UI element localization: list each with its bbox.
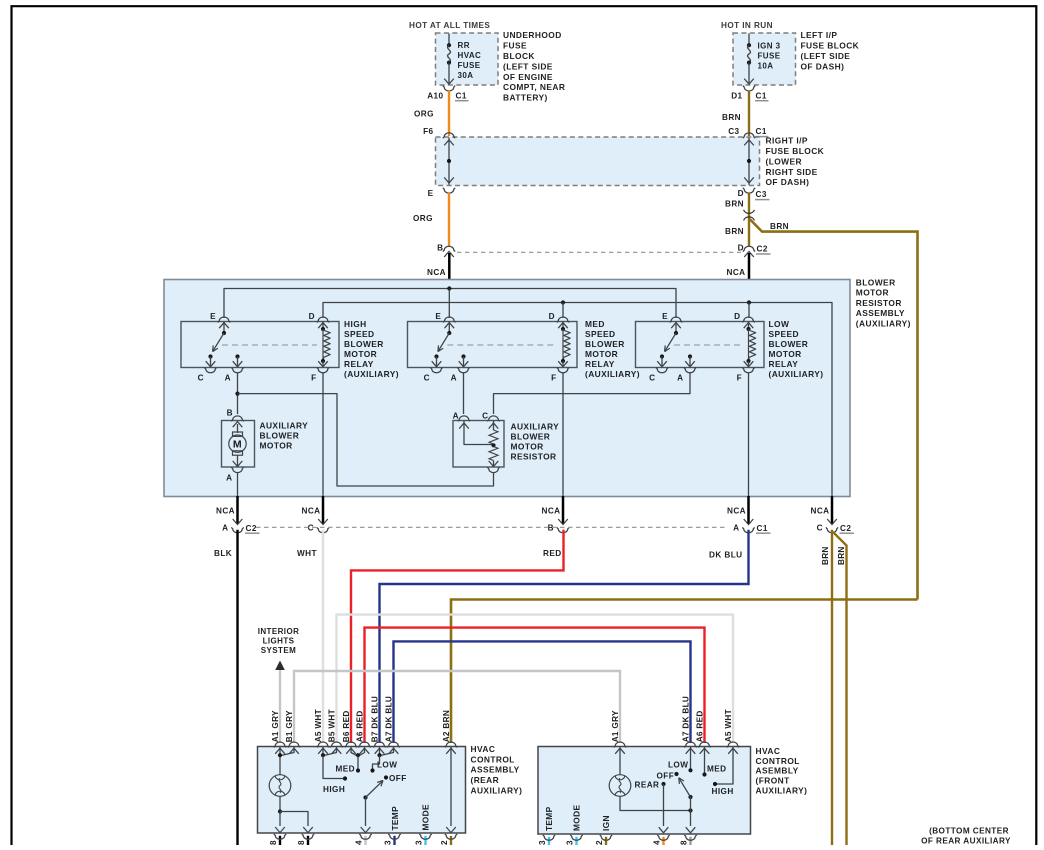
svg-text:IGN: IGN: [601, 815, 611, 831]
front bottom pin 4: [662, 837, 664, 846]
svg-text:IGN 3: IGN 3: [758, 42, 781, 51]
rear HVAC pin A6 RED: [358, 742, 370, 747]
svg-text:ASEMBLY: ASEMBLY: [756, 766, 799, 776]
svg-text:A: A: [451, 374, 457, 383]
relay coil: [321, 327, 325, 331]
wire WHT from connector C to rear A5: [322, 530, 324, 743]
rear HVAC pin A7 DK BLU: [387, 742, 399, 747]
splice S-double-arc in BRN wire: [744, 210, 755, 214]
svg-text:MOTOR: MOTOR: [260, 440, 293, 450]
svg-text:BRN: BRN: [725, 200, 744, 209]
svg-text:LIGHTS: LIGHTS: [263, 637, 295, 646]
wire BLK from connector A C2: [236, 530, 238, 845]
pass-through pin F6-E: [443, 133, 455, 138]
relay internal dashed line: [447, 344, 557, 346]
svg-text:ASSEMBLY: ASSEMBLY: [471, 765, 520, 775]
svg-text:BLOWER: BLOWER: [260, 430, 300, 440]
pin C: [204, 367, 216, 372]
svg-text:D: D: [549, 312, 555, 321]
wire BRN below right I/P block: [748, 193, 750, 247]
svg-text:OF ENGINE: OF ENGINE: [503, 72, 553, 82]
svg-text:RED: RED: [695, 710, 704, 728]
svg-text:TEMP: TEMP: [390, 806, 400, 831]
resistor internal tap: [464, 421, 494, 445]
svg-text:8: 8: [269, 840, 278, 845]
svg-text:B7: B7: [370, 731, 379, 742]
svg-text:NCA: NCA: [811, 507, 830, 516]
svg-text:DK BLU: DK BLU: [384, 696, 393, 729]
wire BRN branch to far right: [750, 219, 918, 600]
pin E: [670, 317, 682, 322]
front switch arm: [688, 795, 692, 799]
svg-text:8: 8: [679, 840, 688, 845]
svg-text:FUSE BLOCK: FUSE BLOCK: [801, 41, 860, 51]
svg-text:BLOWER: BLOWER: [344, 339, 384, 349]
med speed blower motor relay (auxiliary) box: [408, 322, 578, 368]
relay internal dashed line: [674, 344, 743, 346]
svg-text:(REAR: (REAR: [471, 775, 500, 785]
svg-text:LOW: LOW: [377, 760, 397, 769]
wire WHT rear B5 to front A5: [337, 615, 734, 743]
svg-text:MOTOR: MOTOR: [856, 288, 889, 298]
svg-text:A: A: [226, 473, 232, 482]
svg-text:F6: F6: [423, 127, 433, 136]
in-line connector B (left): [443, 246, 455, 251]
svg-text:CONTROL: CONTROL: [471, 754, 515, 764]
right I/P fuse block (dashed box): [436, 137, 760, 186]
resistor element: [493, 421, 495, 431]
svg-text:3: 3: [383, 840, 392, 845]
high speed blower motor relay (auxiliary) box: [181, 322, 339, 368]
svg-text:SPEED: SPEED: [585, 329, 616, 339]
svg-text:C: C: [482, 411, 488, 420]
rear HVAC pin B5 WHT: [330, 742, 342, 747]
rear HVAC pin B6 RED: [345, 742, 357, 747]
svg-text:MODE: MODE: [572, 805, 582, 831]
wire RED from connector B to rear B6: [351, 530, 564, 743]
svg-text:(AUXILIARY): (AUXILIARY): [585, 369, 640, 379]
svg-text:BRN: BRN: [725, 227, 744, 236]
pin A: [457, 367, 469, 372]
svg-text:SPEED: SPEED: [769, 329, 800, 339]
svg-text:3: 3: [538, 840, 547, 845]
motor pin A: [231, 467, 243, 472]
relay switch: [447, 331, 451, 335]
pin F: [317, 367, 329, 372]
svg-text:D: D: [309, 312, 315, 321]
svg-text:REAR: REAR: [635, 780, 660, 789]
connector C1 of left I/P fuse block (D1): [743, 86, 755, 91]
wire relay3 A to resistor C: [494, 373, 691, 414]
svg-text:(LOWER: (LOWER: [766, 156, 802, 166]
in-line connector D C2 (right): [743, 246, 755, 251]
rear A2 BRN pass-through: [450, 747, 452, 827]
front LOW contact from A7: [690, 747, 692, 770]
relay switch: [222, 331, 226, 335]
rear bottom pin 8: [307, 836, 309, 846]
dashed connector line (C2-C1 row): [256, 526, 727, 528]
front HVAC pin A7 DK BLU: [684, 742, 696, 747]
svg-text:D: D: [734, 312, 740, 321]
svg-text:B1: B1: [285, 731, 294, 742]
pin A: [684, 367, 696, 372]
auxiliary blower motor box: [222, 421, 255, 468]
HVAC control assembly (front auxiliary) box: [538, 747, 751, 835]
pin E: [443, 317, 455, 322]
svg-text:BLOWER: BLOWER: [769, 339, 809, 349]
svg-text:3: 3: [414, 840, 423, 845]
svg-text:HVAC: HVAC: [756, 746, 781, 756]
rear bottom pin 4: [364, 836, 366, 846]
wire BRN pair from connector C C2: [831, 530, 833, 845]
wire NCA stubs to connectors: [236, 496, 239, 524]
wire relay1 A to motor B and junction: [237, 373, 239, 414]
front HVAC pin A1 GRY: [614, 742, 626, 747]
bus wire E (top): [224, 289, 676, 319]
svg-text:C1: C1: [756, 91, 767, 100]
front bottom pin 3: [575, 837, 577, 846]
svg-text:30A: 30A: [458, 71, 474, 80]
svg-text:OFF: OFF: [389, 774, 407, 783]
pass-through pin C3-D: [743, 133, 755, 138]
svg-text:(LEFT SIDE: (LEFT SIDE: [503, 61, 553, 71]
svg-text:B5: B5: [327, 731, 336, 742]
rear bottom pin 3: [424, 836, 426, 846]
svg-text:UNDERHOOD: UNDERHOOD: [503, 30, 562, 40]
pin A: [231, 367, 243, 372]
svg-text:B: B: [227, 408, 233, 417]
resistor pin A: [458, 416, 470, 421]
rear bottom pin 8: [279, 836, 281, 846]
svg-text:RED: RED: [543, 549, 562, 558]
wire motor A down to connector A (NCA): [237, 473, 239, 496]
svg-text:RED: RED: [355, 710, 364, 728]
connector exit D C3 (right): [743, 188, 755, 193]
pin D: [317, 317, 329, 322]
rear switch MED feed from B6/A6: [351, 747, 356, 756]
pin D: [742, 317, 754, 322]
connector exit E (left): [443, 188, 455, 193]
svg-text:FUSE: FUSE: [458, 61, 481, 70]
svg-text:BRN: BRN: [821, 546, 830, 565]
svg-text:F: F: [551, 374, 556, 383]
rear bottom pin 2: [450, 836, 452, 846]
svg-text:RELAY: RELAY: [585, 359, 615, 369]
svg-text:(FRONT: (FRONT: [756, 776, 791, 786]
HVAC control assembly (rear auxiliary) box: [258, 747, 466, 834]
svg-text:C2: C2: [757, 245, 768, 254]
relay internal dashed line: [222, 344, 317, 346]
svg-text:E: E: [210, 312, 216, 321]
pin C: [430, 367, 442, 372]
wire GRY rear A1 to interior lights arrow: [279, 670, 281, 743]
svg-text:BRN: BRN: [442, 710, 451, 729]
svg-text:GRY: GRY: [271, 710, 280, 729]
svg-text:MED: MED: [336, 764, 355, 773]
svg-text:C3: C3: [728, 127, 739, 136]
front bottom pin 3: [548, 837, 550, 846]
svg-text:INTERIOR: INTERIOR: [258, 627, 300, 636]
svg-text:A2: A2: [442, 731, 451, 742]
rear HVAC pin B7 DK BLU: [373, 742, 385, 747]
svg-text:AUXILIARY: AUXILIARY: [260, 420, 309, 430]
svg-text:BLOWER: BLOWER: [511, 431, 551, 441]
rear switch OFF contact: [384, 775, 388, 779]
svg-text:10A: 10A: [758, 62, 774, 71]
svg-text:A1: A1: [611, 731, 620, 742]
front bottom pin 2: [605, 837, 607, 846]
arrow to interior lights system: [275, 661, 285, 671]
rear HVAC pin B1 GRY: [288, 742, 300, 747]
svg-text:A5: A5: [314, 731, 323, 742]
svg-text:C3: C3: [756, 190, 767, 199]
rear HVAC pin A2 BRN: [445, 742, 457, 747]
svg-text:F: F: [737, 374, 742, 383]
svg-text:ORG: ORG: [414, 110, 434, 119]
wire RED rear A6 to front A6: [365, 628, 705, 743]
svg-text:A: A: [677, 374, 683, 383]
svg-text:BLK: BLK: [214, 549, 232, 558]
wire NCA left into assembly: [448, 253, 451, 289]
svg-text:BRN: BRN: [770, 222, 789, 231]
svg-text:C: C: [649, 374, 655, 383]
svg-text:C2: C2: [840, 524, 851, 533]
rear lamp output junction: [278, 809, 282, 813]
svg-text:C: C: [198, 374, 204, 383]
wire DK BLU rear A7 to front A7: [394, 641, 691, 743]
wire junction to resistor path (down-right-up): [238, 394, 494, 486]
svg-text:AUXILIARY): AUXILIARY): [471, 786, 523, 796]
svg-text:RESISTOR: RESISTOR: [511, 452, 557, 462]
relay switch: [674, 331, 678, 335]
front HVAC pin A5 WHT: [727, 742, 739, 747]
svg-text:OF REAR AUXILIARY: OF REAR AUXILIARY: [921, 837, 1011, 846]
svg-text:F: F: [311, 374, 316, 383]
svg-text:MED: MED: [707, 765, 726, 774]
svg-text:A1: A1: [271, 731, 280, 742]
svg-text:E: E: [435, 312, 441, 321]
low speed blower motor relay (auxiliary) box: [636, 322, 765, 368]
front MED contact from A6: [704, 747, 706, 775]
svg-text:A5: A5: [724, 731, 733, 742]
svg-text:C: C: [424, 374, 430, 383]
relay coil: [561, 327, 565, 331]
svg-text:AUXILIARY: AUXILIARY: [511, 421, 560, 431]
wire DK BLU from connector A C1 to rear B7: [380, 530, 749, 743]
svg-text:DK BLU: DK BLU: [709, 550, 742, 559]
svg-text:ORG: ORG: [413, 214, 433, 223]
svg-text:A7: A7: [681, 731, 690, 742]
svg-text:BLOCK: BLOCK: [503, 51, 535, 61]
svg-text:RELAY: RELAY: [344, 359, 374, 369]
svg-text:4: 4: [652, 840, 661, 845]
front switch common to pin 8: [690, 797, 692, 826]
svg-text:M: M: [233, 439, 242, 451]
svg-text:NCA: NCA: [727, 507, 746, 516]
svg-text:RED: RED: [342, 710, 351, 728]
rear switch arm: [363, 795, 367, 799]
svg-text:8: 8: [297, 840, 306, 845]
svg-text:2: 2: [595, 840, 604, 845]
wire ORG from underhood fuse: [448, 91, 450, 136]
wire relay3 F down to connector A (NCA): [748, 373, 750, 496]
svg-text:2: 2: [440, 840, 449, 845]
fuse RR HVAC FUSE 30A: [448, 34, 450, 46]
svg-text:TEMP: TEMP: [544, 806, 554, 831]
svg-text:GRY: GRY: [611, 710, 620, 729]
rear switch LOW feed from B7/A7: [379, 747, 381, 756]
motor symbol M: [233, 432, 243, 436]
svg-text:C2: C2: [246, 524, 257, 533]
rear HVAC pin A1 GRY: [274, 742, 286, 747]
rear lamp symbol: [269, 775, 291, 797]
fuse IGN 3 FUSE 10A: [748, 34, 750, 46]
svg-text:D1: D1: [731, 91, 742, 100]
svg-text:HIGH: HIGH: [323, 785, 345, 794]
svg-text:FUSE: FUSE: [758, 52, 781, 61]
svg-text:A7: A7: [384, 731, 393, 742]
svg-text:(AUXILIARY): (AUXILIARY): [344, 369, 399, 379]
motor pin B: [231, 416, 243, 421]
svg-text:C1: C1: [757, 524, 768, 533]
svg-text:A10: A10: [427, 91, 443, 100]
svg-text:WHT: WHT: [327, 709, 336, 729]
svg-text:(BOTTOM CENTER: (BOTTOM CENTER: [929, 826, 1009, 835]
svg-text:ASSEMBLY: ASSEMBLY: [856, 308, 905, 318]
resistor bottom pin: [487, 467, 499, 472]
pin F: [742, 367, 754, 372]
rear switch HIGH feed from A5/B5: [322, 747, 324, 756]
svg-text:3: 3: [565, 840, 574, 845]
svg-text:MOTOR: MOTOR: [769, 349, 802, 359]
svg-text:OF DASH): OF DASH): [801, 61, 845, 71]
pin F: [557, 367, 569, 372]
svg-text:(LEFT SIDE: (LEFT SIDE: [801, 51, 851, 61]
svg-text:B6: B6: [342, 731, 351, 742]
wire relay2 F down to connector B (NCA): [562, 373, 564, 496]
relay coil: [746, 327, 750, 331]
svg-text:NCA: NCA: [302, 507, 321, 516]
svg-text:(AUXILIARY): (AUXILIARY): [769, 369, 824, 379]
svg-text:OF DASH): OF DASH): [766, 177, 810, 187]
svg-text:WHT: WHT: [724, 709, 733, 729]
front interior: A1 to lamp: [619, 747, 621, 775]
resistor pin C: [487, 416, 499, 421]
svg-text:D: D: [738, 243, 744, 252]
svg-text:HIGH: HIGH: [344, 319, 367, 329]
svg-text:RESISTOR: RESISTOR: [856, 298, 902, 308]
wire GRY rear B1 to front A1: [294, 671, 620, 743]
underhood fuse block (dashed box): [436, 33, 499, 85]
rear switch common to pin 4: [365, 798, 367, 827]
wire NCA right into assembly: [748, 253, 751, 303]
svg-text:C: C: [817, 524, 823, 533]
front REAR contact: [661, 782, 665, 786]
svg-text:A6: A6: [695, 731, 704, 742]
pin C: [656, 367, 668, 372]
front lamp to pivot junction: [620, 796, 691, 810]
svg-text:MODE: MODE: [421, 804, 431, 830]
front OFF contact: [674, 772, 678, 776]
svg-text:BATTERY): BATTERY): [503, 93, 548, 103]
svg-text:SYSTEM: SYSTEM: [261, 646, 296, 655]
svg-text:A: A: [222, 524, 228, 533]
svg-text:MED: MED: [585, 319, 605, 329]
svg-text:RELAY: RELAY: [769, 359, 799, 369]
svg-text:C: C: [308, 524, 314, 533]
blower motor resistor assembly (auxiliary) box: [164, 280, 850, 497]
svg-text:NCA: NCA: [427, 268, 446, 277]
wire relay2 A down to resistor A: [463, 373, 465, 414]
svg-text:A: A: [453, 411, 459, 420]
svg-text:DK BLU: DK BLU: [681, 696, 690, 729]
svg-text:DK BLU: DK BLU: [370, 696, 379, 729]
svg-text:C1: C1: [456, 91, 467, 100]
svg-text:LOW: LOW: [769, 319, 790, 329]
svg-text:NCA: NCA: [542, 507, 561, 516]
svg-text:WHT: WHT: [314, 709, 323, 729]
svg-text:HVAC: HVAC: [458, 51, 482, 60]
svg-text:MOTOR: MOTOR: [585, 349, 618, 359]
svg-text:CONTROL: CONTROL: [756, 756, 800, 766]
svg-text:HOT IN RUN: HOT IN RUN: [721, 21, 773, 30]
svg-text:E: E: [662, 312, 668, 321]
svg-text:MOTOR: MOTOR: [511, 442, 544, 452]
svg-text:HVAC: HVAC: [471, 744, 496, 754]
wire BRN from IGN3 fuse: [748, 91, 750, 136]
svg-text:E: E: [428, 189, 434, 198]
svg-text:BRN: BRN: [722, 113, 741, 122]
svg-text:OFF: OFF: [657, 771, 675, 780]
front HIGH contact from A5: [715, 747, 733, 785]
svg-text:HIGH: HIGH: [712, 787, 734, 796]
connector C1 of underhood fuse block (A10): [443, 86, 455, 91]
svg-text:SPEED: SPEED: [344, 329, 375, 339]
svg-text:LOW: LOW: [668, 761, 688, 770]
svg-text:MOTOR: MOTOR: [344, 349, 377, 359]
front HVAC pin A6 RED: [698, 742, 710, 747]
left I/P fuse block (dashed box): [733, 33, 796, 85]
rear bottom pin 3: [393, 836, 395, 846]
svg-text:WHT: WHT: [297, 549, 317, 558]
svg-text:D: D: [738, 189, 744, 198]
wire ORG to connector B: [448, 193, 450, 247]
svg-text:BRN: BRN: [837, 546, 846, 565]
svg-text:B: B: [548, 524, 554, 533]
rear HVAC pin A5 WHT: [317, 742, 329, 747]
svg-text:4: 4: [354, 840, 363, 845]
bus wire D (second): [323, 303, 832, 497]
svg-text:NCA: NCA: [216, 507, 235, 516]
svg-text:COMPT, NEAR: COMPT, NEAR: [503, 82, 565, 92]
svg-text:AUXILIARY): AUXILIARY): [756, 786, 808, 796]
svg-text:HOT AT ALL TIMES: HOT AT ALL TIMES: [409, 21, 490, 30]
pin E: [218, 317, 230, 322]
svg-text:NCA: NCA: [727, 268, 746, 277]
svg-text:RIGHT I/P: RIGHT I/P: [766, 136, 808, 146]
svg-text:BLOWER: BLOWER: [585, 339, 625, 349]
front bottom pin 8: [689, 837, 691, 846]
svg-text:A: A: [733, 524, 739, 533]
auxiliary blower motor resistor box: [453, 421, 504, 468]
svg-text:LEFT I/P: LEFT I/P: [801, 30, 838, 40]
svg-text:RR: RR: [458, 41, 470, 50]
svg-text:A6: A6: [355, 731, 364, 742]
front lamp symbol: [609, 775, 631, 797]
svg-text:B: B: [437, 243, 443, 252]
dashed connector line C2: [457, 251, 741, 253]
svg-text:RIGHT SIDE: RIGHT SIDE: [766, 167, 818, 177]
